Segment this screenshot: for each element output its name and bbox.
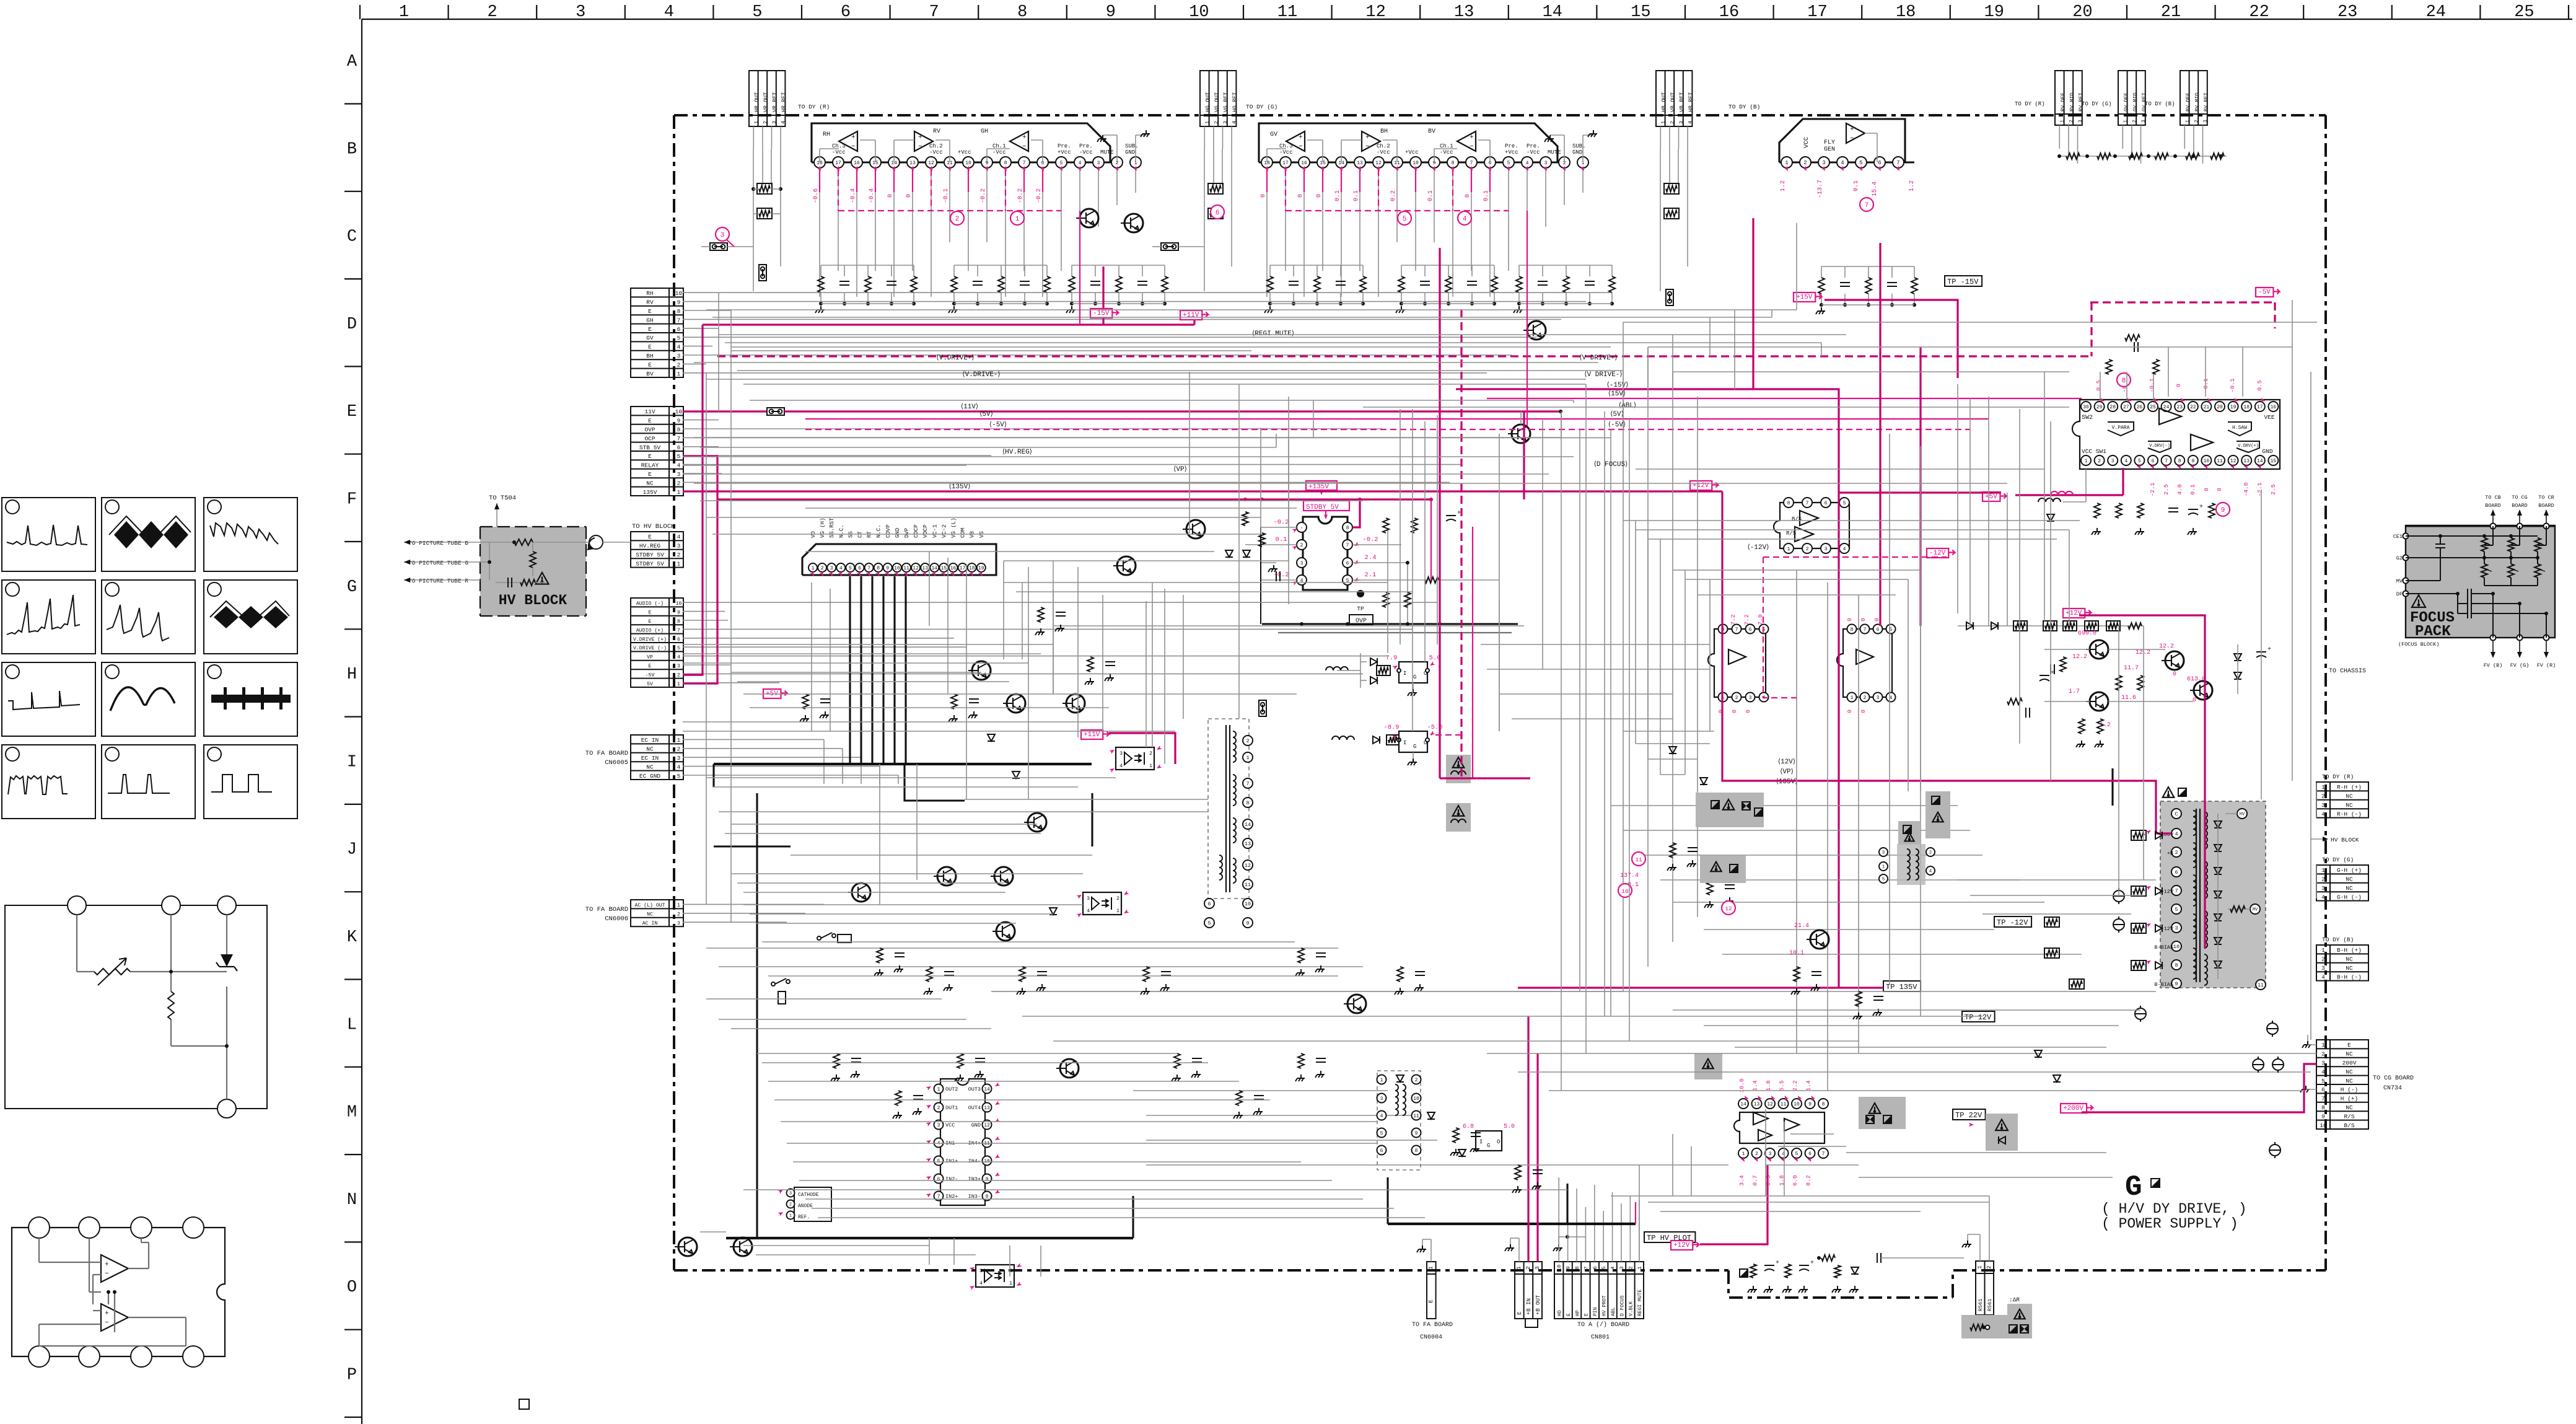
svg-text:4: 4 (1079, 160, 1082, 166)
svg-text:2: 2 (2175, 850, 2178, 856)
STDBY5V pins right 8-5 (1343, 522, 1352, 532)
extra vertical gray drops top band (929, 223, 1821, 1041)
svg-text:3.4: 3.4 (1738, 1175, 1745, 1185)
waveform cell row2 col3 (bowtie chain small) (204, 580, 297, 654)
boxed resistor pair below TO DY B (1664, 183, 1679, 194)
svg-text:E: E (648, 326, 652, 333)
svg-text:1: 1 (1660, 121, 1667, 124)
svg-text:3: 3 (1769, 1151, 1772, 1157)
svg-text:12.2: 12.2 (2136, 649, 2150, 656)
svg-text:E: E (347, 403, 357, 421)
quad opamp DIP B (1837, 629, 1892, 697)
svg-text:4: 4 (2175, 831, 2178, 837)
svg-text:OUT2: OUT2 (945, 1086, 958, 1092)
IC sub-gnd stubs (1564, 135, 1565, 162)
circled 8 annotation (2117, 373, 2131, 387)
svg-text:6: 6 (2175, 869, 2178, 876)
svg-text:2: 2 (821, 566, 824, 571)
pink -5V dashed rail (805, 429, 1970, 430)
svg-text:V.BLK: V.BLK (1629, 1301, 1634, 1316)
svg-text:-5V: -5V (646, 672, 655, 678)
transistor Q607 (937, 867, 956, 886)
svg-text:2.5: 2.5 (2270, 484, 2277, 494)
svg-text:COCP: COCP (913, 524, 919, 538)
svg-text:8: 8 (1851, 627, 1854, 633)
svg-text:17: 17 (835, 160, 841, 166)
svg-text:2: 2 (1300, 543, 1303, 548)
gray warning square A (1446, 755, 1471, 783)
svg-text:7: 7 (1246, 781, 1249, 787)
svg-text:IN2-: IN2- (945, 1176, 958, 1182)
svg-text:7: 7 (2321, 1096, 2325, 1102)
STDBY5V pins left 1-4 (1297, 522, 1307, 532)
inset terminal circle bottom (217, 1099, 236, 1118)
svg-text:RV: RV (646, 299, 654, 306)
svg-text:B-H (-): B-H (-) (2337, 974, 2362, 980)
svg-text:+: + (1850, 126, 1854, 133)
svg-text:+Vcc: +Vcc (1505, 149, 1518, 156)
svg-text:10: 10 (1245, 901, 1251, 907)
svg-text:16: 16 (950, 566, 957, 571)
svg-text:3: 3 (677, 471, 681, 478)
svg-text:E: E (1427, 1299, 1434, 1303)
svg-text:2: 2 (1986, 1265, 1992, 1268)
svg-text:TO CG BOARD: TO CG BOARD (2373, 1075, 2414, 1082)
svg-text:690.0: 690.0 (2078, 630, 2096, 637)
transformer T603 dashed outline (1208, 719, 1249, 899)
svg-text:5: 5 (2175, 907, 2178, 913)
svg-text:-: - (1300, 525, 1303, 531)
warning triangle at flyback top (2163, 787, 2175, 798)
svg-text:3: 3 (2111, 459, 2114, 464)
svg-text:1: 1 (1785, 160, 1788, 166)
svg-text:TO DY (G): TO DY (G) (2082, 101, 2112, 107)
IC outline (RH/RV/GH channel amp) (812, 123, 1110, 162)
svg-text:14: 14 (931, 566, 937, 571)
right area passives under transistors (2007, 644, 2271, 747)
HV BLOCK output node circle (589, 535, 603, 549)
relay and switch symbols (817, 933, 851, 943)
svg-text:RELAY: RELAY (641, 462, 659, 469)
svg-text:−: − (1299, 143, 1303, 151)
svg-text:11: 11 (1413, 1114, 1419, 1119)
resistor in gray box (1970, 1324, 1984, 1330)
svg-text:10: 10 (1794, 1102, 1800, 1107)
svg-text:2: 2 (677, 480, 681, 486)
svg-text:2: 2 (1116, 895, 1119, 902)
svg-text:B: B (347, 140, 357, 159)
svg-text:13: 13 (2243, 459, 2250, 464)
svg-text:OUT3: OUT3 (968, 1086, 981, 1092)
heavy horizontal bus mid-left (714, 763, 1092, 765)
svg-text:AC (L) OUT: AC (L) OUT (634, 902, 665, 908)
svg-text:7.2: 7.2 (1743, 614, 1750, 625)
svg-text:30: 30 (2083, 405, 2089, 410)
FOCUS PACK top terminals (2491, 524, 2496, 529)
dual op-amp IC outline inset (12, 1228, 225, 1356)
svg-text:2: 2 (1415, 1078, 1418, 1083)
svg-text:E: E (648, 471, 652, 478)
svg-text:TP 135V: TP 135V (1886, 983, 1917, 991)
svg-text:RV: RV (933, 128, 940, 135)
svg-text:2: 2 (1213, 121, 1219, 124)
svg-text:3: 3 (677, 755, 681, 762)
svg-text:5: 5 (677, 453, 681, 460)
svg-text:VG RET: VG RET (1223, 92, 1229, 112)
waveform cell row4 col2 (two narrow pulses) (102, 745, 195, 819)
svg-text:1: 1 (677, 737, 681, 744)
T603 primary winding (1233, 731, 1236, 762)
svg-text:NC: NC (647, 912, 653, 918)
IC601 pin circles 1..19 (808, 517, 986, 578)
svg-text:6: 6 (2152, 459, 2155, 464)
svg-text:-Vcc: -Vcc (1527, 149, 1540, 156)
svg-text:11: 11 (1277, 3, 1297, 22)
svg-text:−: − (1365, 143, 1370, 151)
svg-text:TO DY (R): TO DY (R) (2015, 101, 2045, 107)
diode bridge before regulators (1326, 653, 1399, 745)
svg-text:0.1: 0.1 (1483, 190, 1490, 201)
svg-text:G: G (1487, 1143, 1490, 1149)
svg-text:E: E (648, 453, 652, 460)
pink 11V drop to STDBY area (1523, 411, 1525, 499)
svg-text:11V: 11V (644, 408, 655, 415)
ground above CN6004 (1422, 1246, 1423, 1249)
+5V pink wire to SW IC (2015, 494, 2123, 496)
svg-text:−: − (851, 143, 856, 151)
CATHODE ANODE REF box (794, 1187, 831, 1221)
svg-text:7: 7 (929, 3, 939, 22)
svg-text:−: − (1850, 135, 1854, 143)
long gray loop wires right half (991, 322, 2317, 1041)
svg-text:0: 0 (1731, 710, 1738, 713)
svg-text:11: 11 (903, 566, 909, 571)
svg-text:21: 21 (2161, 3, 2181, 22)
V.PARA pentagon (2108, 422, 2134, 436)
pink 5V rail (805, 418, 1989, 420)
svg-text:2: 2 (1803, 160, 1807, 166)
heavy riser right of bottom bus (1132, 1196, 1134, 1238)
svg-text:0: 0 (1297, 194, 1304, 198)
svg-text:5: 5 (1795, 1151, 1798, 1157)
svg-text:AC IN: AC IN (642, 921, 658, 926)
svg-text:O: O (347, 1278, 357, 1297)
svg-text:(FOCUS BLOCK): (FOCUS BLOCK) (2398, 641, 2439, 648)
svg-text:200V: 200V (2342, 1060, 2357, 1066)
svg-text:TO CG: TO CG (2512, 494, 2528, 501)
svg-text:-0.2: -0.2 (1017, 188, 1024, 203)
svg-text:9: 9 (1106, 3, 1116, 22)
svg-text:+: + (2051, 670, 2054, 677)
svg-text:10: 10 (676, 601, 682, 607)
FLY GEN pin circles 1..7 (1781, 157, 1904, 168)
svg-text:1: 1 (2123, 120, 2129, 123)
circled 9 annotation (2216, 503, 2230, 516)
svg-text:4: 4 (1841, 160, 1844, 166)
svg-text:SS.RST: SS.RST (829, 517, 835, 538)
gray warning blocks left of flyback (1696, 793, 1764, 827)
svg-text:TO CR: TO CR (2538, 494, 2554, 501)
passive cluster right of FLY GEN (1821, 266, 1914, 267)
IC internal amp wiring (1266, 149, 1268, 162)
svg-text:GV: GV (646, 335, 654, 341)
extra bottom mesh (700, 1109, 1989, 1277)
svg-text:12: 12 (1725, 905, 1732, 912)
svg-text:⟨V DRIVE-⟩: ⟨V DRIVE-⟩ (1584, 371, 1622, 379)
svg-text:0.1: 0.1 (1853, 180, 1860, 191)
svg-text:14: 14 (984, 1087, 990, 1092)
pink -5V to AUDIO (683, 674, 703, 675)
transistor Q601 (972, 661, 991, 680)
ground above CN801 (1558, 1244, 1559, 1248)
svg-text:4: 4 (2321, 974, 2325, 980)
flyback diode stack (2214, 814, 2250, 979)
waveform cell row4 col1 (noisy square wave) (2, 745, 95, 819)
transistor Q613 (734, 1237, 752, 1256)
svg-text:L: L (347, 1016, 357, 1034)
svg-text:7: 7 (867, 566, 870, 571)
circled 2 annotation (950, 211, 964, 225)
svg-text:CN6004: CN6004 (1420, 1334, 1442, 1341)
svg-text:1: 1 (677, 560, 681, 567)
svg-text:GV: GV (1270, 131, 1277, 138)
svg-text:6: 6 (937, 1177, 940, 1182)
svg-text:CN801: CN801 (1591, 1334, 1610, 1341)
svg-text:3: 3 (2321, 965, 2325, 972)
svg-text:D: D (347, 315, 357, 334)
svg-text:MUTE: MUTE (1548, 149, 1561, 156)
svg-text:⟨-5V⟩: ⟨-5V⟩ (989, 421, 1007, 429)
svg-text:6: 6 (1346, 561, 1349, 566)
IC pin circles 18..1 (1261, 157, 1588, 168)
svg-text:OVP: OVP (644, 426, 655, 433)
svg-text:3: 3 (677, 543, 681, 550)
V.DRIVE(-) hexagon (2148, 441, 2171, 452)
svg-text:TO HV BLOCK: TO HV BLOCK (632, 523, 675, 530)
svg-text:E: E (2347, 1042, 2351, 1048)
svg-text:8: 8 (677, 619, 680, 625)
svg-text:H.SAW: H.SAW (2232, 425, 2247, 431)
svg-text:BV: BV (1428, 128, 1435, 135)
svg-text:1.7: 1.7 (2069, 688, 2080, 695)
feedthrough caps right bottom (2113, 888, 2284, 1158)
svg-text:GND: GND (895, 528, 901, 538)
svg-text:4: 4 (1526, 160, 1529, 166)
pink STB5V vertical feeds (683, 456, 717, 683)
svg-text:9: 9 (2191, 459, 2194, 464)
transistor Q610 (1028, 813, 1046, 832)
svg-text:2: 2 (487, 3, 497, 22)
svg-text:11.6: 11.6 (2121, 695, 2136, 701)
svg-text:G: G (1413, 744, 1416, 750)
svg-text:⟨11V⟩: ⟨11V⟩ (961, 403, 978, 411)
svg-text:13: 13 (984, 1105, 990, 1111)
heavy bus under IC601 (850, 576, 906, 764)
svg-text:GEN: GEN (1824, 146, 1835, 153)
svg-text:5: 5 (1859, 160, 1862, 166)
optocoupler PC601 (1116, 747, 1154, 770)
svg-text:6: 6 (677, 444, 681, 451)
svg-text:8: 8 (1415, 1148, 1418, 1154)
svg-text:NC: NC (2346, 1051, 2353, 1058)
TP 135V box (1883, 981, 1921, 991)
svg-text:E: E (649, 664, 652, 669)
FOCUS PACK gray box (2406, 525, 2555, 638)
svg-text:5: 5 (849, 566, 852, 571)
svg-text:8: 8 (677, 426, 681, 433)
svg-text:1: 1 (2321, 867, 2325, 874)
connector CN801 10-pin (1554, 1262, 1644, 1319)
svg-text:0: 0 (1745, 710, 1751, 713)
svg-text:2: 2 (677, 672, 680, 678)
svg-text:5: 5 (1507, 160, 1510, 166)
quad driver left pins 1..7 (926, 1084, 958, 1201)
svg-text:1: 1 (1428, 1266, 1434, 1269)
svg-text:7: 7 (677, 435, 681, 442)
SW IC surrounding passives (2038, 335, 2215, 535)
svg-text:14: 14 (1245, 822, 1251, 828)
svg-text:+: + (1810, 1260, 1814, 1267)
svg-text:3: 3 (2321, 1060, 2325, 1066)
svg-text:24: 24 (2426, 3, 2446, 22)
svg-text:BV DEF: BV DEF (2185, 92, 2191, 112)
svg-text:10: 10 (2320, 1122, 2327, 1129)
svg-text:7: 7 (2175, 888, 2178, 894)
pink measure dashes under IC1 pins (813, 165, 1139, 211)
svg-text:+: + (918, 134, 922, 141)
svg-text:6: 6 (1592, 1266, 1598, 1269)
svg-text:3: 3 (2321, 885, 2325, 892)
svg-text:13: 13 (1754, 1102, 1760, 1107)
svg-text:19: 19 (1984, 3, 2004, 22)
svg-text:3: 3 (2175, 925, 2178, 931)
svg-text:HR OUT: HR OUT (754, 92, 760, 112)
svg-text:TO DY (R): TO DY (R) (798, 103, 830, 110)
svg-text:⟨135V⟩: ⟨135V⟩ (949, 483, 971, 491)
svg-text:+15V: +15V (1796, 294, 1813, 301)
svg-text:VEE: VEE (2264, 414, 2274, 421)
svg-text:7: 7 (1583, 1266, 1589, 1269)
waveform cell row3 col2 (two arches) (102, 662, 195, 736)
V.DRIVE(+) hexagon (2236, 441, 2259, 452)
svg-text:4: 4 (677, 534, 681, 540)
svg-text:E: E (649, 610, 652, 616)
svg-text:11.7: 11.7 (2124, 665, 2139, 672)
svg-text:CE1: CE1 (2393, 534, 2403, 540)
svg-text:B-BIAS: B-BIAS (2154, 944, 2173, 951)
heavy vertical feed line (756, 793, 758, 1238)
pink 135V TP rail bottom (1518, 987, 1883, 988)
svg-text:3: 3 (771, 121, 778, 124)
transistors high-voltage pair (2090, 640, 2108, 659)
HV BLOCK warning triangle (536, 573, 549, 584)
pink +11V wire at transformer (1109, 733, 1175, 764)
svg-text:TP -12V: TP -12V (1997, 918, 2028, 927)
svg-text:GND: GND (1572, 149, 1582, 156)
svg-text:15: 15 (2271, 459, 2277, 464)
svg-text:-0.6: -0.6 (813, 188, 820, 203)
svg-text:GND: GND (1125, 149, 1135, 156)
svg-text:RV DEF: RV DEF (2060, 92, 2066, 112)
svg-text:6: 6 (1207, 901, 1211, 907)
svg-text:3: 3 (2203, 120, 2209, 123)
vertical fuse right of IC2 (1666, 289, 1673, 305)
waveform cell row1 col2 (bowtie chain) (102, 498, 195, 571)
svg-text:8: 8 (2321, 1104, 2325, 1111)
wires below TO DY R connector (753, 126, 754, 149)
svg-text:⟨ABL⟩: ⟨ABL⟩ (1619, 402, 1636, 410)
connector TO DY G (HG OUT/VG OUT/VG RET/HG RET) (1200, 71, 1236, 126)
pink vertical feeds from IC pins (1079, 211, 1080, 325)
T603 core lines (1225, 725, 1227, 892)
svg-text:VG (L): VG (L) (951, 518, 957, 538)
svg-text:VG (H): VG (H) (820, 518, 826, 538)
svg-text:4: 4 (664, 3, 674, 22)
gray warning box left mid (1694, 1053, 1722, 1079)
passive cluster under IC1 c (1072, 265, 1165, 266)
svg-text:NC: NC (646, 746, 654, 753)
svg-text:OUT4: OUT4 (968, 1105, 981, 1111)
passive cluster under IC2 b (1401, 265, 1494, 266)
svg-text:11: 11 (1635, 856, 1642, 863)
svg-text:IN4-: IN4- (968, 1158, 981, 1164)
svg-text:HG RET: HG RET (1232, 92, 1238, 112)
svg-text:8: 8 (1574, 1266, 1580, 1269)
svg-text:EC IN: EC IN (641, 755, 659, 762)
waveform cell row3 col1 (small pulse) (2, 662, 95, 736)
svg-text:G: G (1413, 674, 1416, 680)
svg-text:3: 3 (1678, 121, 1684, 124)
svg-text:FV (R): FV (R) (2537, 662, 2556, 669)
svg-text:TO DY (R): TO DY (R) (2322, 773, 2354, 780)
svg-text:9: 9 (986, 1177, 989, 1182)
-5V pink label top right (2256, 288, 2273, 297)
svg-text:13: 13 (1245, 841, 1251, 847)
svg-text:3: 3 (721, 232, 725, 239)
svg-text:VCC SW1: VCC SW1 (2082, 448, 2106, 455)
svg-text:1: 1 (1149, 763, 1152, 769)
svg-text:7.2: 7.2 (1730, 614, 1737, 625)
SW IC pink voltage annotations top (2095, 378, 2263, 392)
SW IC top pin row 30..16 (2081, 397, 2278, 411)
TP -15V box (1945, 276, 1982, 286)
svg-text:1: 1 (812, 566, 815, 571)
transistor Q620 top area (1347, 995, 1366, 1013)
svg-text:11: 11 (1781, 1102, 1787, 1107)
voltage regulator +5V (I G O) (1399, 662, 1427, 683)
TP 22V box (1953, 1109, 1986, 1120)
svg-text:+B OUT: +B OUT (1535, 1294, 1541, 1315)
svg-text:28: 28 (2109, 405, 2116, 410)
svg-text:12.2: 12.2 (2072, 654, 2087, 661)
bus wires from AC table (683, 904, 824, 922)
svg-text:2: 2 (677, 361, 681, 368)
heavy bus under STDBY IC (1262, 623, 1518, 625)
svg-text:4: 4 (839, 566, 843, 571)
svg-text:VC-1: VC-1 (932, 524, 938, 538)
bus wires from AUDIO table rows (683, 602, 1437, 683)
svg-text:10: 10 (1413, 160, 1419, 166)
svg-text:V.DRV(-): V.DRV(-) (2149, 444, 2170, 449)
border ruler top line (362, 19, 2572, 20)
svg-text:2: 2 (2321, 956, 2325, 963)
svg-text:4: 4 (677, 655, 680, 661)
svg-text:⟨D FOCUS⟩: ⟨D FOCUS⟩ (1594, 460, 1628, 468)
STDBY5V pink voltage annotations (1273, 519, 1378, 586)
svg-text:HV.REG: HV.REG (639, 543, 661, 550)
FOCUS PACK bottom terminals (2491, 635, 2496, 641)
diode-resistor chain row (1958, 621, 2144, 631)
